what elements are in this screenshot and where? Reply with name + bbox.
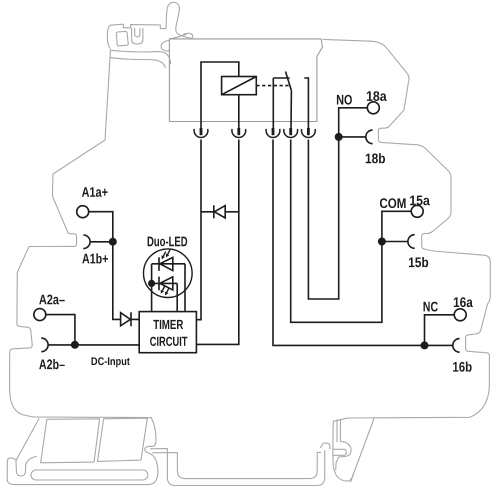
timer circuit box U1 (139, 312, 196, 353)
label COM (380, 198, 406, 208)
label Duo-LED (148, 237, 188, 247)
label 15a (410, 196, 430, 206)
label NO (337, 95, 352, 105)
terminal circle A2a (34, 309, 46, 321)
switch blade (286, 72, 292, 91)
din rail top surface line (151, 449, 325, 486)
led D1 upper (159, 257, 173, 271)
bracket hole right with tab (132, 28, 143, 44)
label 16a (454, 297, 473, 307)
led D1 arrows (163, 250, 170, 256)
housing bottom right diagonal (351, 418, 375, 482)
terminal hook A2b (41, 338, 48, 352)
clamp pin (200, 128, 203, 135)
din rail right tip cap (321, 443, 331, 449)
terminal circle 16a (454, 309, 466, 321)
node A1 junction (109, 238, 117, 246)
foot slot (31, 470, 148, 480)
din-rail foot left outline (7, 418, 158, 485)
wire coil top loop (201, 62, 239, 128)
relay box outline (169, 39, 322, 122)
wire NC contact run (273, 140, 425, 346)
wire A1 node to diode (113, 242, 121, 320)
din rail lower surface line (153, 452, 321, 478)
node COM junction (378, 238, 386, 246)
wire to 18b hook (339, 136, 366, 138)
foot slanted panel right (98, 418, 148, 461)
duo-led circle (144, 249, 193, 298)
switch fixed bar (273, 77, 289, 79)
wire coil B to timer (196, 140, 238, 345)
housing neck wavy line lower (110, 58, 165, 68)
wire NC to 16a (425, 315, 455, 346)
node NC junction (421, 341, 429, 349)
led wiring left (151, 264, 153, 312)
dashed actuator link (256, 85, 288, 87)
label TIMER (153, 320, 183, 329)
label 18a (367, 91, 387, 101)
wire A1a to node (89, 212, 113, 242)
relay coil K1 (222, 77, 257, 95)
right catch top edge (333, 418, 347, 421)
mounting bracket body (107, 2, 193, 48)
clamp socket (194, 129, 208, 138)
foot ear inner pocket (16, 457, 37, 477)
wire A1b to node (90, 241, 113, 243)
led D2 arrows (162, 286, 169, 292)
input diode V2 (121, 312, 139, 326)
label 18b (366, 153, 385, 163)
terminal circle 15a (411, 205, 423, 217)
led D2 lower (159, 277, 173, 291)
wire to 16b hook (425, 344, 453, 346)
label A1b+ (82, 253, 108, 263)
node NO junction (335, 133, 343, 141)
led upper branch wire (152, 264, 185, 312)
label DC-Input (92, 357, 130, 367)
housing left contour (10, 50, 111, 417)
wire COM contact run (291, 140, 382, 323)
wire NO contact run (308, 137, 338, 299)
label A1a+ (82, 187, 108, 197)
node led junction (148, 280, 155, 287)
node A2 junction (71, 341, 79, 349)
terminal hook 16b (453, 339, 460, 353)
terminal hook 15b (408, 235, 415, 249)
freewheel diode V1 (201, 205, 239, 218)
wire coil bottom (238, 95, 240, 129)
right catch inner profile (336, 420, 351, 471)
wire COM to 15a (382, 211, 411, 241)
terminal circle 18a (367, 102, 379, 114)
label NC (424, 302, 438, 312)
terminal circle A1a (77, 206, 89, 218)
wire switch pole (290, 91, 292, 129)
bracket hole left (116, 31, 128, 46)
wire switch right contact (304, 78, 308, 128)
right catch tooth (334, 449, 347, 455)
housing bottom face (34, 416, 151, 419)
label CIRCUIT (150, 337, 187, 346)
housing pocket left of relay box (161, 40, 169, 50)
right catch outer (333, 421, 354, 481)
wire NO to 18a (339, 108, 368, 137)
label A2b- (39, 359, 64, 369)
label A2a- (39, 295, 64, 305)
housing right contour (323, 39, 490, 418)
led lower branch wire (152, 283, 178, 311)
wire coil A to timer (196, 140, 201, 320)
housing neck wavy line upper (110, 50, 170, 64)
plug-in clamp contacts under relay (194, 128, 315, 137)
bracket s-curve to box corner (170, 34, 187, 39)
wire switch left contact (272, 78, 274, 128)
terminal hook A1b (83, 235, 90, 249)
label 16b (453, 362, 472, 372)
right catch inner rib (336, 420, 338, 442)
wire to 15b hook (382, 241, 408, 243)
wire A2b to timer (48, 344, 139, 346)
terminal hook 18b (366, 130, 373, 144)
foot slanted panel left (41, 419, 100, 463)
wire A2a to node (46, 315, 75, 345)
label 15b (409, 257, 428, 267)
